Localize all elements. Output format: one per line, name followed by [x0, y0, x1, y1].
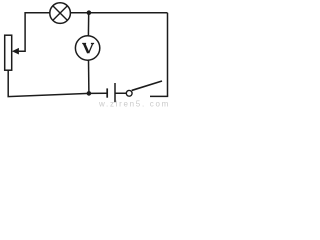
wire switch right stub: [150, 95, 168, 97]
wire voltmeter top stem: [87, 13, 89, 36]
wire top-left from lamp to wiper corner: [19, 13, 50, 51]
wire battery to switch pivot: [115, 92, 126, 94]
svg-text:w.zlren5. com: w.zlren5. com: [98, 99, 170, 108]
battery cell: short plate (negative): [106, 88, 108, 97]
rheostat R1 (slide box): [5, 35, 12, 70]
voltmeter V1: [75, 36, 99, 60]
node junction bottom: [87, 91, 92, 96]
lamp L1: [50, 3, 71, 24]
switch blade (open): [132, 81, 162, 90]
node junction top: [87, 10, 92, 15]
wiper arrowhead into rheostat: [12, 48, 19, 55]
wire right side down: [167, 13, 169, 97]
wire rheostat bottom to bottom-left corner: [8, 70, 89, 96]
wire bottom: junction to battery: [89, 92, 107, 94]
switch S1 pivot: [126, 90, 132, 96]
wire voltmeter bottom stem: [88, 60, 90, 93]
battery cell: long plate (positive): [114, 83, 116, 102]
wire top: lamp right to top-right corner: [71, 12, 168, 14]
